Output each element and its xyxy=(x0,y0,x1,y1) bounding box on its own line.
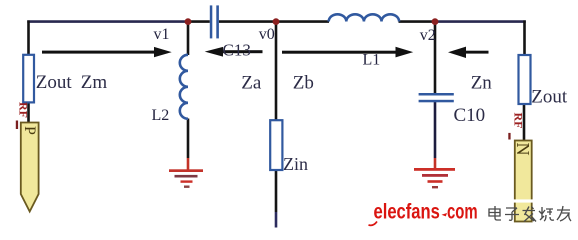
node v1 junction dot xyxy=(185,18,192,25)
arrow L1 (pointing right toward v2) xyxy=(282,47,413,58)
svg-text:v0: v0 xyxy=(259,26,275,43)
ground (left, under L2) xyxy=(169,169,203,188)
wire Zin stem bottom navy tail xyxy=(275,212,278,228)
svg-text:N: N xyxy=(513,143,533,156)
char shao xyxy=(539,207,554,221)
ground (right, under C10) xyxy=(414,168,455,188)
wire v0 stem down to Zin xyxy=(275,22,278,121)
char you xyxy=(557,206,571,221)
port N tick (right) xyxy=(508,133,510,140)
svg-text:C13: C13 xyxy=(223,41,251,60)
wire left vertical (corner down to Zout) xyxy=(27,20,30,55)
svg-text:RF: RF xyxy=(17,102,31,118)
capacitor C10 (shunt at v2) xyxy=(419,93,454,102)
resistor Zout (left) xyxy=(23,55,34,103)
char fa xyxy=(523,207,537,222)
svg-text:Zb: Zb xyxy=(293,72,314,93)
svg-text:Zm: Zm xyxy=(81,72,108,93)
wire v0 to L1 left end xyxy=(276,20,329,23)
node v2 junction dot xyxy=(432,18,439,25)
wire C10 bottom to ground xyxy=(434,102,437,159)
wire right vertical (corner down to Zout) xyxy=(523,20,526,56)
port N probe body xyxy=(515,141,532,222)
port P probe body xyxy=(21,123,39,212)
port P tick (left) xyxy=(16,121,18,130)
inductor L1 (series, top wire) xyxy=(329,14,399,21)
svg-text:Zout: Zout xyxy=(36,72,73,93)
wire left Zout to port P xyxy=(27,103,30,123)
wire v1 stem down to L2 xyxy=(187,22,190,55)
svg-text:Za: Za xyxy=(241,72,262,93)
wire ground stem red (left ground) xyxy=(187,158,190,170)
svg-text:Zout: Zout xyxy=(531,87,568,108)
svg-text:elecfans: elecfans xyxy=(374,201,440,224)
char zi xyxy=(505,208,519,220)
wire v2 stem down to C10 xyxy=(434,22,437,94)
svg-text:v1: v1 xyxy=(154,26,170,43)
svg-text:Zn: Zn xyxy=(471,72,493,93)
wire right Zout to port N xyxy=(523,104,526,141)
wire L1 right end to v2 xyxy=(399,20,436,23)
svg-text:RF: RF xyxy=(512,113,526,129)
resistor Zin xyxy=(270,120,282,170)
svg-text:L1: L1 xyxy=(363,52,381,69)
svg-text:Zin: Zin xyxy=(283,154,308,174)
inductor L2 (shunt at v1) xyxy=(180,55,188,119)
wire v1 to C13 left plate xyxy=(188,20,210,23)
watermark white strip over probe N xyxy=(512,199,535,202)
svg-text:L2: L2 xyxy=(152,107,170,124)
svg-text:com: com xyxy=(447,200,478,223)
wire v2 to top right corner xyxy=(435,20,526,23)
arrow Zn (pointing left toward v2) xyxy=(448,47,489,58)
wire right ground stem red xyxy=(434,158,437,169)
wire L2 bottom to ground xyxy=(187,119,190,159)
capacitor C13 (series, top wire) xyxy=(210,5,219,38)
watermark chinese characters 电子发烧友 xyxy=(489,206,571,222)
svg-text:C10: C10 xyxy=(454,105,486,126)
svg-text:v2: v2 xyxy=(420,27,436,44)
char dian xyxy=(489,206,501,220)
node v0 junction dot xyxy=(273,18,280,25)
arrow Za (pointing left toward v1 from v0) xyxy=(205,47,263,57)
svg-text:P: P xyxy=(21,126,38,135)
wire C13 right plate to v0 xyxy=(219,20,276,23)
arrow Zm (pointing right toward v1) xyxy=(42,47,172,57)
resistor Zout (right) xyxy=(519,55,531,104)
wire Zin bottom stem xyxy=(275,170,278,213)
wire top left horizontal (corner to node v1) xyxy=(27,20,188,23)
elecfans.com logo xyxy=(369,200,478,225)
